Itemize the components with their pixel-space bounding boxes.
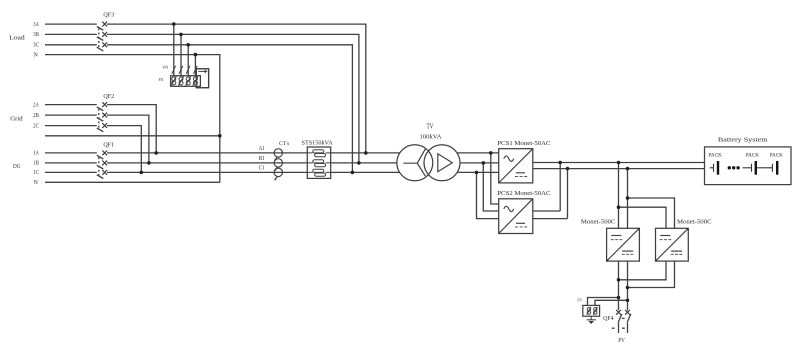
- svg-text:Battery System: Battery System: [718, 137, 768, 144]
- svg-text:3C: 3C: [33, 43, 39, 49]
- svg-text:1C: 1C: [33, 170, 39, 176]
- svg-text:PV: PV: [618, 337, 625, 344]
- svg-text:N: N: [34, 52, 39, 58]
- svg-text:C1: C1: [259, 166, 265, 172]
- svg-text:PCS2 Monet-50AC: PCS2 Monet-50AC: [497, 190, 550, 197]
- svg-text:QF3: QF3: [103, 11, 114, 18]
- svg-text:QF4: QF4: [603, 316, 614, 322]
- svg-text:100kVA: 100kVA: [420, 133, 442, 140]
- svg-text:2C: 2C: [33, 123, 39, 129]
- svg-text:1A: 1A: [33, 151, 39, 157]
- svg-text:PACK: PACK: [770, 153, 783, 159]
- svg-text:2B: 2B: [33, 113, 39, 119]
- svg-text:PACK: PACK: [709, 153, 722, 159]
- svg-text:A1: A1: [259, 146, 265, 152]
- svg-text:STS150kVA: STS150kVA: [302, 141, 334, 147]
- svg-text:B1: B1: [259, 156, 265, 162]
- svg-text:FV1: FV1: [578, 298, 583, 303]
- svg-text:QF2: QF2: [103, 93, 114, 100]
- svg-text:kWh: kWh: [163, 64, 169, 69]
- svg-text:Monet-500C: Monet-500C: [581, 218, 616, 225]
- svg-text:PCS1 Monet-50AC: PCS1 Monet-50AC: [497, 140, 550, 147]
- svg-text:TV: TV: [427, 123, 434, 131]
- svg-text:PACK: PACK: [746, 153, 759, 159]
- svg-text:DG: DG: [13, 163, 21, 170]
- svg-text:1B: 1B: [33, 161, 39, 167]
- svg-text:N: N: [34, 180, 39, 186]
- svg-text:Load: Load: [9, 35, 26, 42]
- svg-text:3A: 3A: [33, 22, 39, 28]
- svg-text:2A: 2A: [33, 102, 39, 108]
- svg-text:PJ1: PJ1: [159, 77, 164, 82]
- svg-text:CT's: CT's: [279, 141, 289, 147]
- svg-text:Grid: Grid: [10, 116, 23, 123]
- svg-text:Monet-500C: Monet-500C: [677, 218, 712, 225]
- svg-text:3B: 3B: [33, 32, 39, 38]
- svg-text:QF1: QF1: [103, 141, 114, 148]
